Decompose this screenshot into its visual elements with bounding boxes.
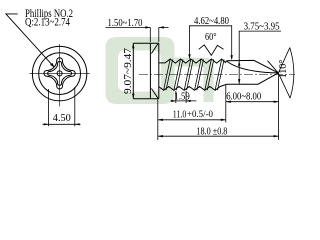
horizontal centerline front view (30, 73, 90, 75)
threads bottom zigzag (159, 84, 227, 90)
dimension 3.75~3.95 (239, 31, 281, 84)
phillips recess cross outer (44, 58, 75, 89)
svg-text:3.75~3.95: 3.75~3.95 (244, 21, 280, 33)
inner circle of head front view (39, 53, 81, 95)
thread angle 60 annotation (199, 45, 224, 55)
dimension 4.62~4.80 (189, 26, 232, 59)
svg-text:1.59: 1.59 (174, 91, 190, 103)
drill point outline (227, 60, 279, 84)
svg-text:1.50~1.70: 1.50~1.70 (108, 17, 143, 29)
dimension 1.59 (171, 91, 197, 103)
dimension 18.0 (158, 74, 279, 141)
recess center circle (57, 71, 62, 76)
dimension 11.0 (158, 100, 226, 141)
leader arrowhead (50, 63, 55, 68)
thread helix ribbons (164, 59, 225, 90)
svg-text:11.0: 11.0 (173, 109, 187, 121)
vertical centerline front view (59, 44, 61, 107)
svg-text:110°: 110° (277, 60, 289, 79)
svg-text:Q:2.13~2.74: Q:2.13~2.74 (25, 17, 70, 29)
leader line to phillips recess (6, 14, 51, 64)
phillips recess cross inner (48, 61, 72, 85)
side view centerline (139, 74, 295, 76)
outer circle of head front view (32, 46, 86, 100)
svg-text:6.00~8.00: 6.00~8.00 (226, 91, 261, 103)
svg-text:60°: 60° (205, 31, 217, 43)
threads top zigzag (159, 59, 227, 63)
svg-text:18.0 ±0.8: 18.0 ±0.8 (196, 125, 227, 137)
svg-text:+0.5/-0: +0.5/-0 (187, 109, 213, 119)
point angle 110 annotation (278, 48, 294, 99)
watermark ring 2 (175, 58, 214, 103)
watermark ring 1 (106, 37, 175, 104)
svg-text:9.07~9.47: 9.07~9.47 (122, 47, 134, 94)
svg-text:4.50: 4.50 (53, 112, 71, 124)
drill flute curve (227, 61, 279, 73)
drill cutting lip (268, 61, 279, 73)
side view head (133, 43, 159, 98)
dimension 1.50~1.70 (106, 27, 169, 42)
dimension 4.50 (43, 87, 81, 126)
dimension 9.07~9.47 arrows (132, 43, 134, 48)
dimension 6.00~8.00 (226, 84, 279, 122)
svg-text:4.62~4.80: 4.62~4.80 (194, 15, 229, 27)
